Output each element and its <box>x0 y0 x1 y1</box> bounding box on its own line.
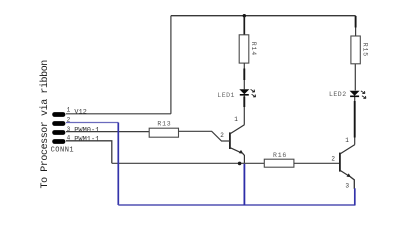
transistor Q2 base bar <box>339 153 341 172</box>
LED D1 anode triangle <box>239 89 249 94</box>
svg-text:3: 3 <box>345 182 349 189</box>
LED2 light arrow b <box>362 96 366 99</box>
wire LED2 to R15 <box>354 64 356 91</box>
svg-text:V12: V12 <box>74 108 87 116</box>
svg-text:To Processor via ribbon: To Processor via ribbon <box>39 60 51 189</box>
wire LED1 to Q1 collector <box>243 95 245 124</box>
LED D2 anode triangle <box>350 91 360 96</box>
resistor R16 <box>264 159 294 167</box>
svg-text:1: 1 <box>345 137 349 144</box>
node junction emitter / pin 3 blob <box>238 162 242 166</box>
wire R16 to Q2 base <box>294 162 340 164</box>
resistor R14 <box>239 35 249 63</box>
LED1 light arrow b <box>252 94 256 97</box>
wire V12 top rail <box>171 15 356 17</box>
wire V12 from pin1 <box>66 113 171 115</box>
wire R15 top stub <box>355 16 357 36</box>
wire blue middle vertical <box>243 164 245 205</box>
wire blue bottom rail <box>118 204 355 206</box>
wire left vertical V12 <box>170 16 172 114</box>
wire R14 to LED1 <box>243 63 245 89</box>
wire dark segment <box>355 16 357 28</box>
resistor R15 <box>351 36 360 64</box>
svg-text:LED2: LED2 <box>329 91 347 98</box>
transistor Q1 base bar <box>229 132 231 149</box>
svg-text:R14: R14 <box>250 42 257 56</box>
node junction top <box>243 14 246 17</box>
transistor Q2 collector <box>340 145 355 154</box>
LED2 light arrow a <box>361 91 365 94</box>
svg-text:LED1: LED1 <box>217 92 235 99</box>
wire Q2 collector up <box>354 96 356 144</box>
svg-text:2: 2 <box>220 132 224 139</box>
svg-text:2: 2 <box>331 155 335 162</box>
wire blue left vertical <box>117 123 119 206</box>
LED1 light arrow a <box>251 89 255 92</box>
wire dark segment <box>243 97 245 108</box>
LED D2 cathode bar <box>350 95 359 97</box>
connector CONN1 pin 2 pad <box>52 121 65 126</box>
svg-text:R15: R15 <box>361 43 368 57</box>
svg-text:R13: R13 <box>157 121 171 128</box>
resistor R13 <box>149 128 178 137</box>
wire blue right vertical <box>354 188 356 205</box>
svg-text:1: 1 <box>234 116 238 123</box>
wire Q1 emitter down <box>243 153 245 163</box>
wire R14 top stub <box>243 16 245 35</box>
svg-text:1: 1 <box>67 106 71 113</box>
connector CONN1 pin 1 pad <box>52 112 65 117</box>
wire dark segment <box>354 101 356 138</box>
connector CONN1 pin 3 pad <box>52 130 65 135</box>
wire dark segment <box>243 69 245 81</box>
transistor Q1 emitter <box>230 148 242 153</box>
LED D1 cathode bar <box>240 94 249 96</box>
wire emitter rail to R16 <box>112 162 264 164</box>
svg-text:R16: R16 <box>273 152 287 159</box>
connector CONN1 pin 4 pad <box>52 139 65 144</box>
transistor Q1 emitter arrowhead <box>239 150 244 154</box>
wire Q2 emitter down <box>350 177 354 189</box>
transistor Q2 emitter <box>340 170 349 176</box>
wire PWM0-1 from pin3 <box>66 131 149 133</box>
transistor Q1 collector <box>230 125 245 134</box>
wire R13 to Q1 base <box>179 131 230 141</box>
svg-text:CONN1: CONN1 <box>51 146 75 154</box>
wire PWM1-1 from pin4 <box>66 141 112 164</box>
transistor Q2 emitter arrowhead <box>347 173 352 177</box>
wire blue net from pin2 <box>66 122 118 124</box>
